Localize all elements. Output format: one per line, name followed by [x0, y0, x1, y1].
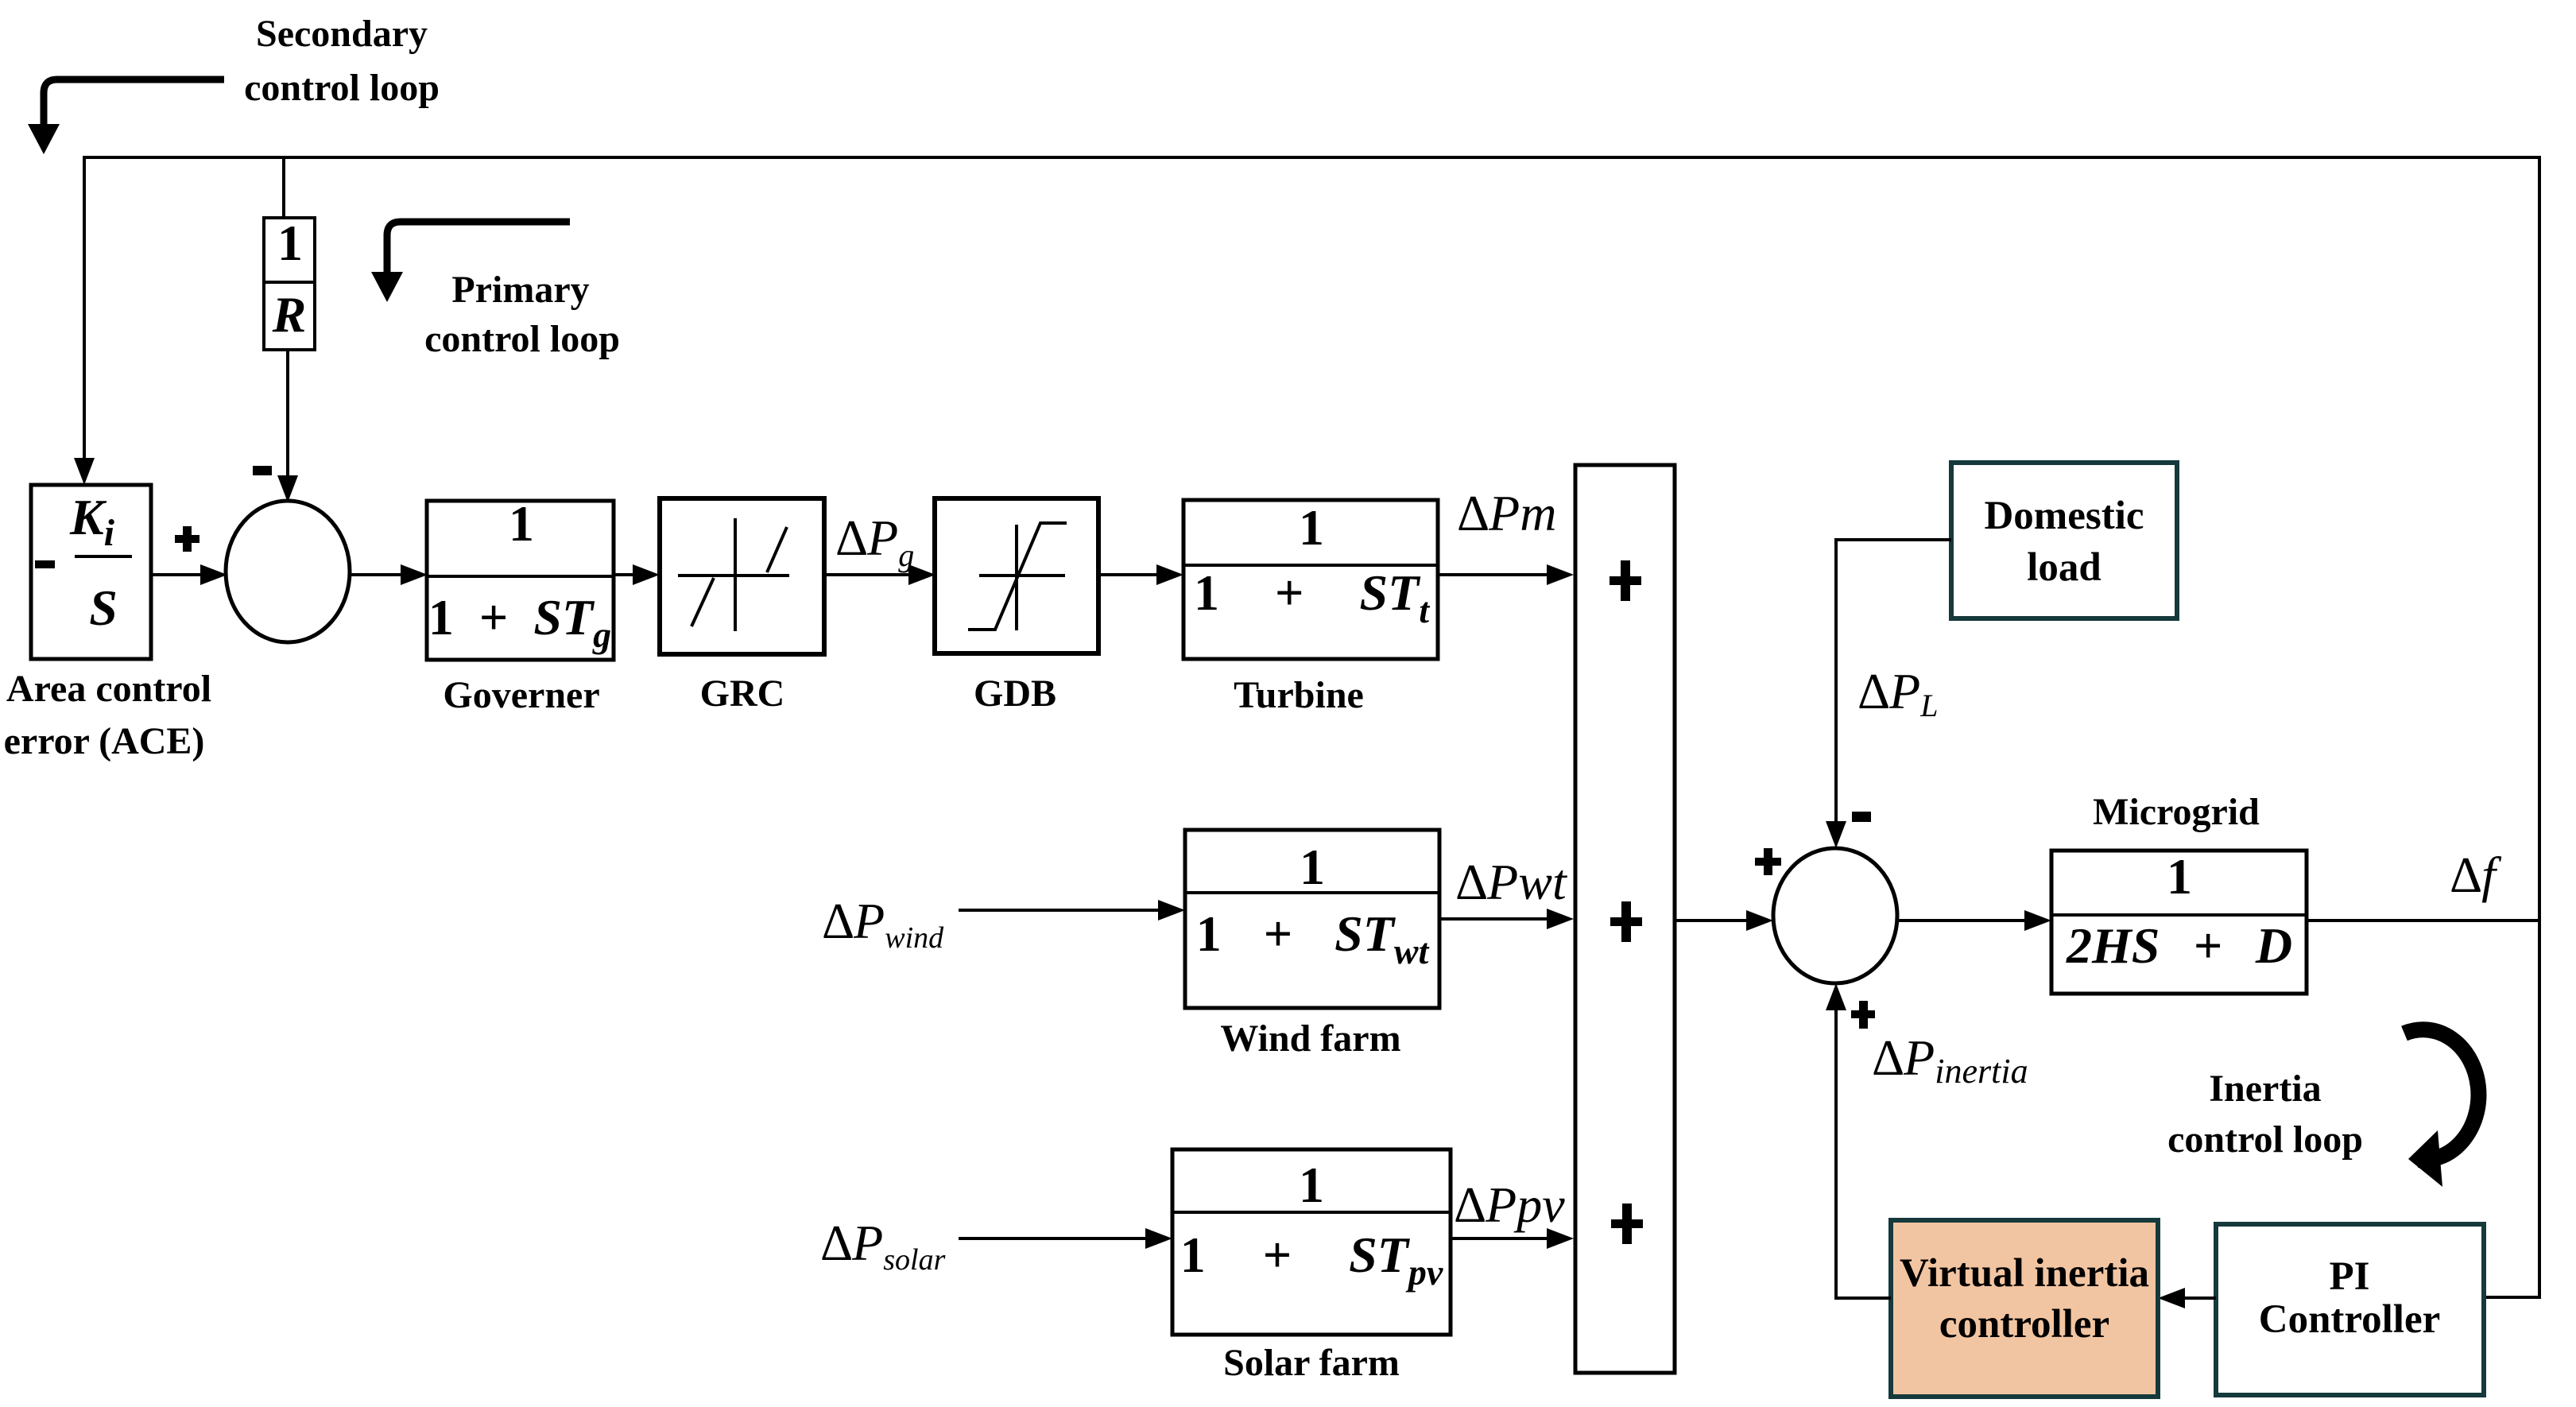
sign: plus row 2	[1610, 917, 1642, 926]
svg-text:Domestic: Domestic	[1984, 494, 2144, 538]
sign: minus into circle 1	[253, 466, 272, 475]
svg-text:Secondary: Secondary	[256, 13, 428, 55]
wire: stub from top line to 1/R	[282, 157, 285, 219]
svg-text:S: S	[89, 579, 118, 636]
sign: plus into circle 2 left	[1755, 858, 1781, 866]
node: secondary loop label arrow	[44, 79, 224, 126]
sign: plus row 3	[1611, 1219, 1643, 1228]
svg-text:1: 1	[277, 215, 303, 271]
block: Solar farm 1/(1+STpv)	[1172, 1149, 1451, 1335]
svg-text:∆Pm: ∆Pm	[1458, 485, 1556, 541]
wire: drop to ACE block	[74, 458, 95, 485]
svg-text:1: 1	[1299, 499, 1324, 556]
wire: solar input	[959, 1237, 1161, 1240]
svg-text:Controller: Controller	[2259, 1297, 2441, 1342]
wire: circle 2 to Microgrid	[1897, 919, 2040, 922]
block: Governer 1/(1+STg)	[427, 501, 614, 660]
wire: wind input	[959, 909, 1174, 912]
block: droop 1/R	[264, 218, 315, 350]
svg-text:1: 1	[509, 495, 534, 552]
svg-text:1: 1	[1299, 1157, 1324, 1213]
summing circle 2	[1773, 848, 1897, 983]
svg-text:control loop: control loop	[244, 67, 440, 109]
svg-text:1 + STt: 1 + STt	[1194, 564, 1430, 630]
svg-text:Wind farm: Wind farm	[1220, 1017, 1400, 1060]
svg-text:PI: PI	[2330, 1254, 2370, 1299]
sign: plus into circle 1	[175, 535, 199, 543]
block: Turbine 1/(1+STt)	[1183, 500, 1438, 659]
svg-text:Virtual inertia: Virtual inertia	[1900, 1251, 2149, 1296]
svg-text:∆f: ∆f	[2450, 847, 2502, 903]
svg-text:Governer: Governer	[443, 674, 599, 716]
wire: Domestic load to circle 2	[1836, 540, 1951, 836]
wire: 1/R down to summing circle 1	[286, 350, 289, 477]
block: GRC rate limiter	[660, 498, 824, 654]
svg-text:∆Ppv: ∆Ppv	[1455, 1176, 1565, 1233]
block: GDB dead band	[935, 498, 1098, 653]
block: Virtual inertia controller	[1891, 1220, 2158, 1397]
wire: secondary feedback top line	[84, 157, 2539, 1297]
svg-text:2HS + D: 2HS + D	[2066, 917, 2292, 974]
svg-text:∆Pwt: ∆Pwt	[1456, 854, 1568, 910]
svg-text:control loop: control loop	[2167, 1118, 2363, 1161]
wire: Governer to GRC	[614, 573, 649, 576]
wire: Microgrid output delta f	[2307, 919, 2539, 922]
svg-text:R: R	[272, 286, 307, 343]
wire: circle 1 to Governer	[350, 573, 416, 576]
block: Wind farm 1/(1+STwt)	[1185, 830, 1439, 1008]
svg-text:1 + STpv: 1 + STpv	[1180, 1227, 1443, 1293]
sign: plus into circle 2 bottom	[1851, 1010, 1875, 1018]
wire: summing rectangle to circle 2	[1675, 919, 1762, 922]
block: summing rectangle	[1575, 465, 1675, 1373]
svg-text:GRC: GRC	[700, 672, 785, 715]
wire: Solar farm to summing rectangle	[1451, 1237, 1563, 1240]
summing circle 1	[226, 501, 350, 642]
wire: Virtual inertia controller to circle 2	[1836, 995, 1891, 1298]
sign: minus into circle 2	[1852, 812, 1871, 822]
node: inertia loop curved arrow	[2404, 1029, 2478, 1160]
block: Domestic load	[1951, 463, 2177, 618]
svg-text:1 + STg: 1 + STg	[428, 589, 611, 655]
wire: GDB to Turbine	[1098, 573, 1172, 576]
wire: GRC to GDB	[824, 573, 924, 576]
sign: plus row 1	[1610, 576, 1641, 585]
svg-text:controller: controller	[1939, 1302, 2109, 1347]
svg-text:Solar farm: Solar farm	[1223, 1342, 1400, 1384]
svg-text:Inertia: Inertia	[2209, 1068, 2321, 1110]
svg-text:Area control: Area control	[6, 668, 211, 710]
block: Microgrid 1/(2HS+D)	[2051, 851, 2307, 994]
wire: Turbine to summing rectangle	[1438, 573, 1563, 576]
svg-text:load: load	[2027, 545, 2101, 590]
svg-text:control loop: control loop	[424, 318, 620, 360]
svg-text:error (ACE): error (ACE)	[4, 720, 205, 762]
svg-text:Microgrid: Microgrid	[2093, 791, 2260, 833]
node: primary loop label arrow	[387, 222, 570, 273]
wire: ACE to summing circle 1	[151, 573, 216, 576]
block: ACE Ki/S	[31, 485, 151, 659]
svg-text:1: 1	[2167, 848, 2192, 905]
wire: PI Controller to Virtual inertia controller	[2169, 1297, 2216, 1300]
svg-text:1: 1	[1300, 839, 1325, 895]
svg-text:Turbine: Turbine	[1234, 674, 1364, 716]
block: PI Controller	[2216, 1224, 2484, 1395]
svg-text:GDB: GDB	[974, 672, 1056, 715]
svg-text:Primary: Primary	[451, 269, 589, 311]
wire: Wind farm to summing rectangle	[1439, 917, 1563, 921]
